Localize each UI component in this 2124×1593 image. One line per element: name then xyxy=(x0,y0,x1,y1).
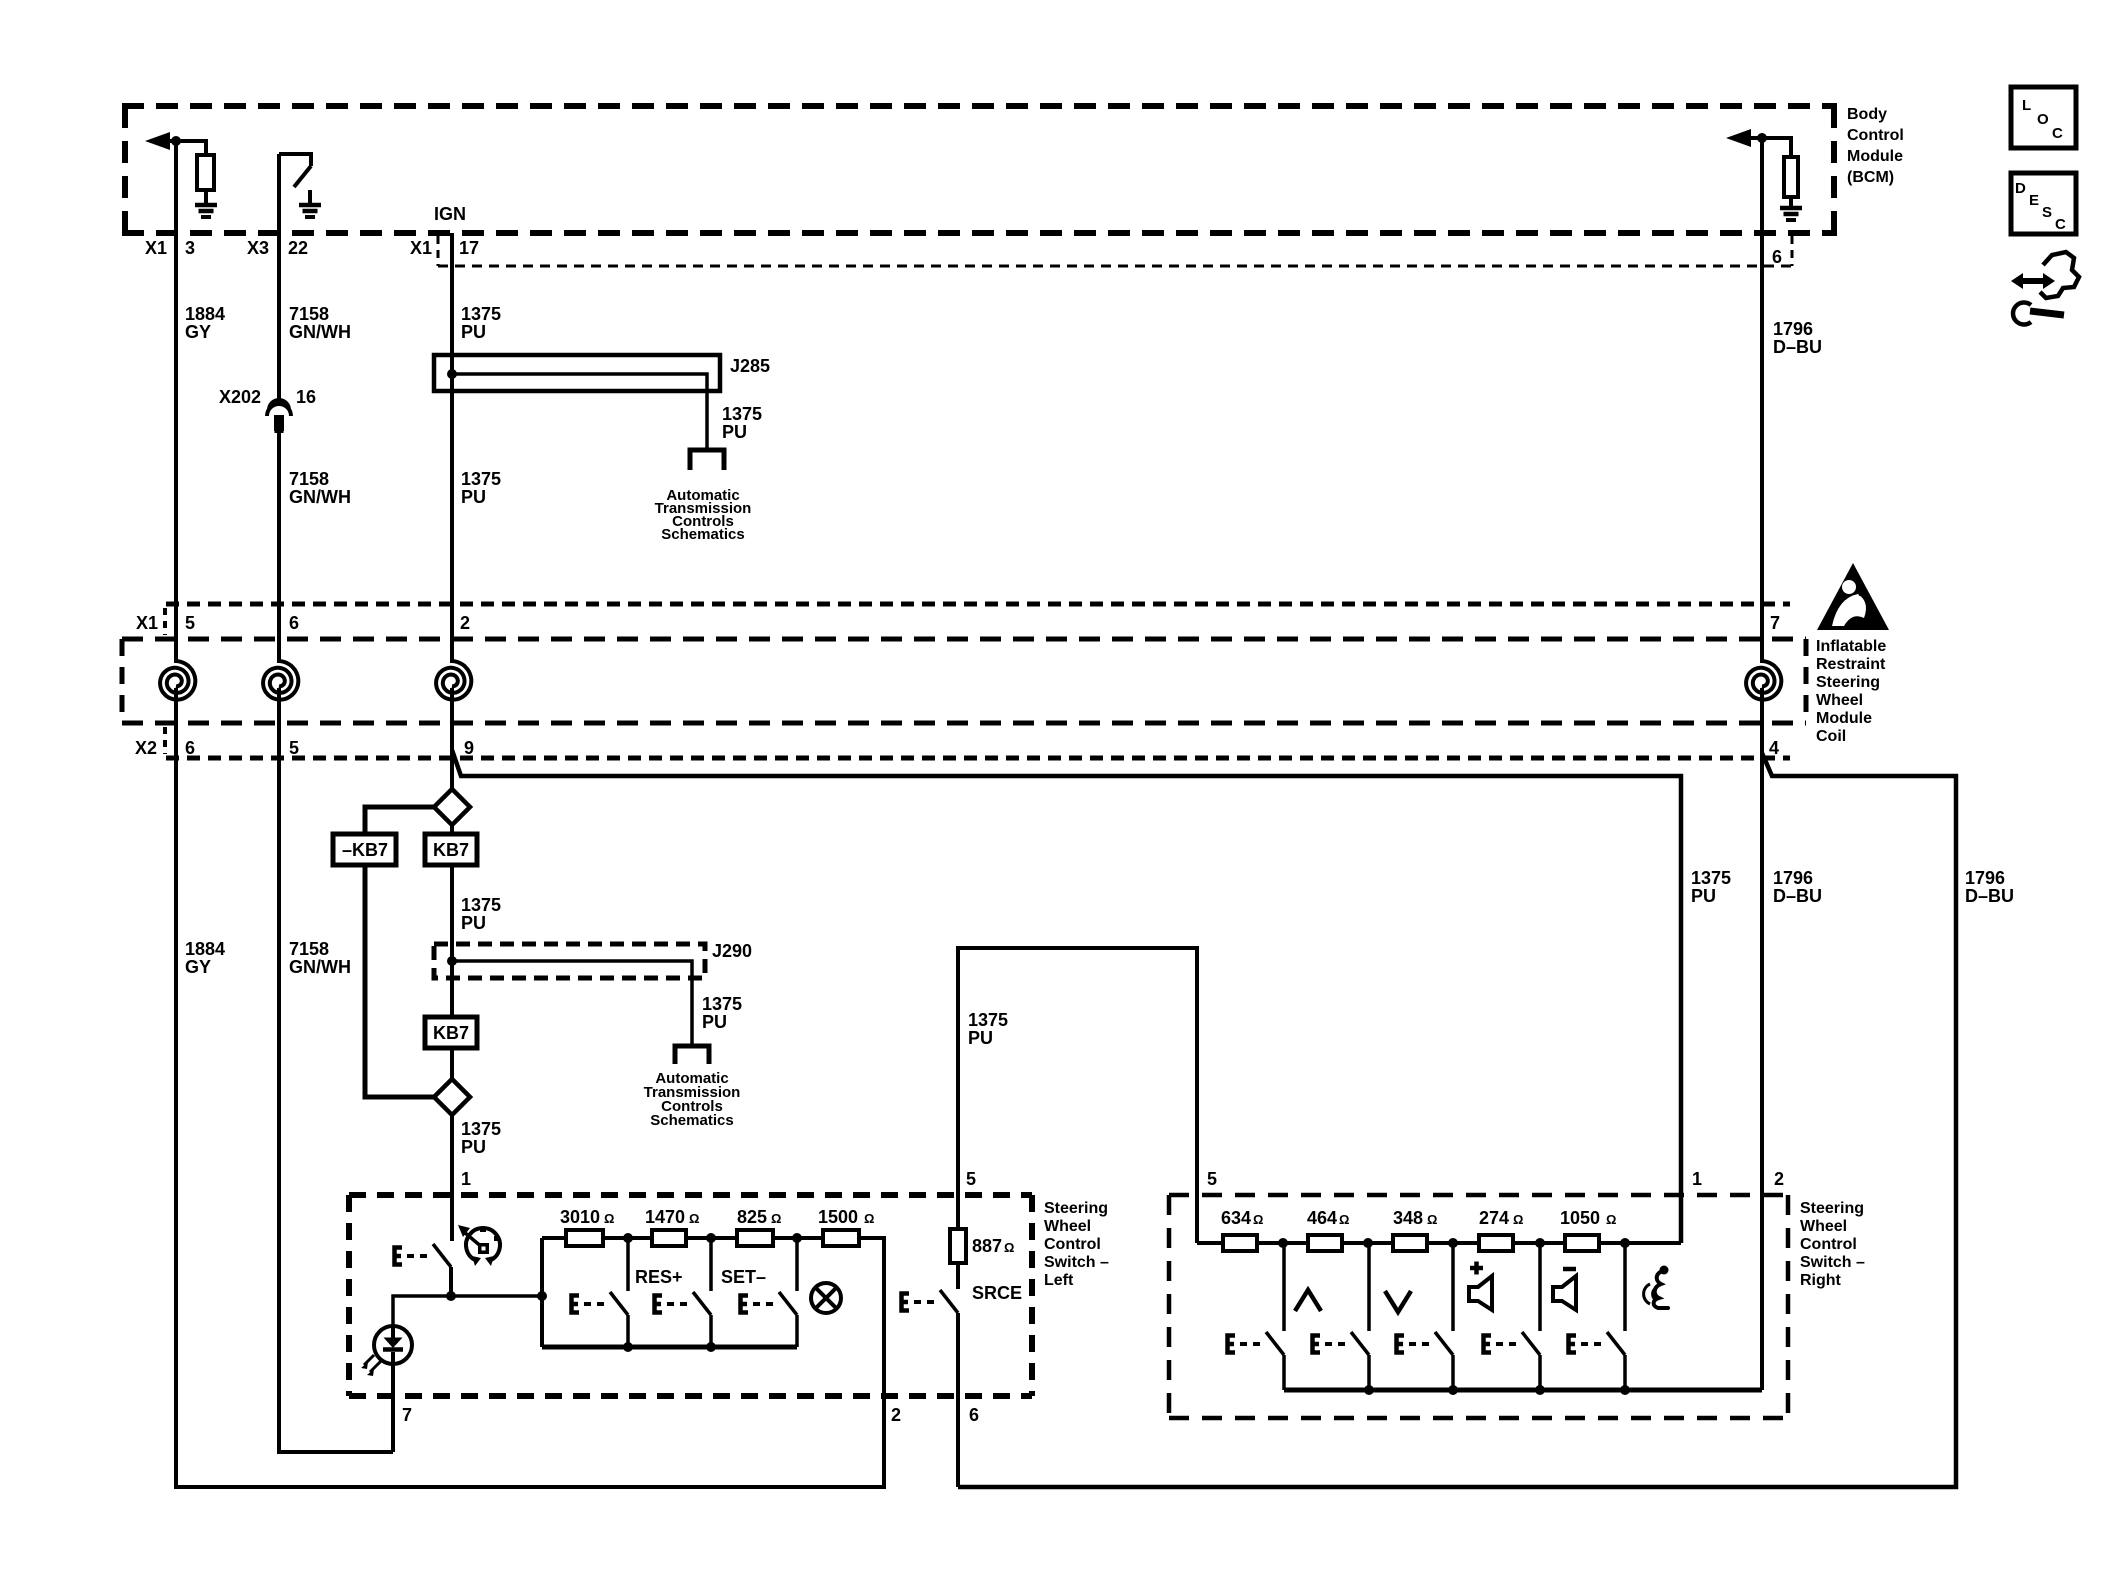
svg-text:X1: X1 xyxy=(136,613,158,633)
svg-text:O: O xyxy=(2037,111,2049,128)
svg-text:5: 5 xyxy=(289,738,299,758)
svg-text:16: 16 xyxy=(296,387,316,407)
svg-text:1796: 1796 xyxy=(1965,868,2005,888)
svg-text:(BCM): (BCM) xyxy=(1847,169,1894,186)
svg-text:Control: Control xyxy=(1044,1236,1101,1253)
svg-text:Coil: Coil xyxy=(1816,728,1846,745)
svg-text:D: D xyxy=(2015,180,2026,197)
svg-text:Schematics: Schematics xyxy=(661,526,744,543)
svg-text:1375: 1375 xyxy=(722,404,762,424)
svg-text:7158: 7158 xyxy=(289,304,329,324)
svg-text:17: 17 xyxy=(459,238,479,258)
svg-text:PU: PU xyxy=(461,322,486,342)
svg-text:1884: 1884 xyxy=(185,304,225,324)
svg-text:PU: PU xyxy=(702,1012,727,1032)
svg-text:2: 2 xyxy=(460,613,470,633)
svg-text:1375: 1375 xyxy=(1691,868,1731,888)
svg-text:D–BU: D–BU xyxy=(1773,337,1822,357)
svg-text:1: 1 xyxy=(1692,1169,1702,1189)
svg-text:1375: 1375 xyxy=(702,994,742,1014)
svg-text:GY: GY xyxy=(185,322,211,342)
svg-text:6: 6 xyxy=(1772,247,1782,267)
svg-text:Ω: Ω xyxy=(1253,1212,1263,1227)
svg-text:IGN: IGN xyxy=(434,204,466,224)
svg-text:–KB7: –KB7 xyxy=(342,840,388,860)
svg-text:Right: Right xyxy=(1800,1272,1842,1289)
svg-text:Ω: Ω xyxy=(1004,1240,1014,1255)
svg-text:PU: PU xyxy=(968,1028,993,1048)
svg-text:Ω: Ω xyxy=(1513,1212,1523,1227)
svg-text:Ω: Ω xyxy=(864,1211,874,1226)
svg-text:1796: 1796 xyxy=(1773,868,1813,888)
svg-text:1375: 1375 xyxy=(461,304,501,324)
svg-text:634: 634 xyxy=(1221,1208,1251,1228)
svg-text:PU: PU xyxy=(461,1137,486,1157)
svg-text:PU: PU xyxy=(461,487,486,507)
svg-text:7158: 7158 xyxy=(289,469,329,489)
svg-text:6: 6 xyxy=(289,613,299,633)
svg-text:5: 5 xyxy=(966,1169,976,1189)
svg-text:E: E xyxy=(2029,192,2039,209)
svg-text:GN/WH: GN/WH xyxy=(289,487,351,507)
svg-text:7: 7 xyxy=(1770,613,1780,633)
svg-text:887: 887 xyxy=(972,1236,1002,1256)
svg-text:Switch –: Switch – xyxy=(1044,1254,1109,1271)
svg-text:SET–: SET– xyxy=(721,1267,766,1287)
svg-text:J290: J290 xyxy=(712,941,752,961)
svg-text:PU: PU xyxy=(722,422,747,442)
svg-text:Inflatable: Inflatable xyxy=(1816,638,1886,655)
svg-text:Ω: Ω xyxy=(689,1211,699,1226)
svg-text:3: 3 xyxy=(185,238,195,258)
svg-text:1375: 1375 xyxy=(968,1010,1008,1030)
svg-text:Wheel: Wheel xyxy=(1816,692,1863,709)
svg-text:7158: 7158 xyxy=(289,939,329,959)
svg-text:Ω: Ω xyxy=(771,1211,781,1226)
svg-text:Ω: Ω xyxy=(1606,1212,1616,1227)
svg-text:X3: X3 xyxy=(247,238,269,258)
svg-text:Ω: Ω xyxy=(604,1211,614,1226)
svg-text:Body: Body xyxy=(1847,106,1887,123)
svg-text:4: 4 xyxy=(1769,738,1779,758)
svg-text:1: 1 xyxy=(461,1169,471,1189)
svg-text:274: 274 xyxy=(1479,1208,1509,1228)
svg-text:X2: X2 xyxy=(135,738,157,758)
svg-text:KB7: KB7 xyxy=(433,1023,469,1043)
svg-text:1375: 1375 xyxy=(461,469,501,489)
svg-text:464: 464 xyxy=(1307,1208,1337,1228)
svg-text:L: L xyxy=(2022,97,2031,114)
svg-text:J285: J285 xyxy=(730,356,770,376)
svg-text:Wheel: Wheel xyxy=(1800,1218,1847,1235)
svg-text:KB7: KB7 xyxy=(433,840,469,860)
svg-text:825: 825 xyxy=(737,1207,767,1227)
svg-text:S: S xyxy=(2042,204,2052,221)
svg-text:1375: 1375 xyxy=(461,1119,501,1139)
svg-text:6: 6 xyxy=(969,1405,979,1425)
svg-text:X202: X202 xyxy=(219,387,261,407)
svg-text:GY: GY xyxy=(185,957,211,977)
svg-text:1050: 1050 xyxy=(1560,1208,1600,1228)
svg-text:5: 5 xyxy=(185,613,195,633)
svg-text:PU: PU xyxy=(461,913,486,933)
svg-text:Schematics: Schematics xyxy=(650,1112,733,1129)
svg-text:1884: 1884 xyxy=(185,939,225,959)
svg-text:C: C xyxy=(2055,216,2066,233)
svg-text:Left: Left xyxy=(1044,1272,1074,1289)
svg-text:Ω: Ω xyxy=(1339,1212,1349,1227)
svg-text:Steering: Steering xyxy=(1800,1200,1864,1217)
svg-text:Control: Control xyxy=(1847,127,1904,144)
svg-text:1470: 1470 xyxy=(645,1207,685,1227)
svg-text:2: 2 xyxy=(891,1405,901,1425)
svg-text:Steering: Steering xyxy=(1044,1200,1108,1217)
svg-text:1375: 1375 xyxy=(461,895,501,915)
svg-text:Control: Control xyxy=(1800,1236,1857,1253)
svg-text:348: 348 xyxy=(1393,1208,1423,1228)
svg-text:5: 5 xyxy=(1207,1169,1217,1189)
svg-text:D–BU: D–BU xyxy=(1773,886,1822,906)
svg-text:D–BU: D–BU xyxy=(1965,886,2014,906)
svg-text:7: 7 xyxy=(402,1405,412,1425)
svg-text:GN/WH: GN/WH xyxy=(289,322,351,342)
svg-text:9: 9 xyxy=(464,738,474,758)
svg-text:X1: X1 xyxy=(410,238,432,258)
svg-text:1796: 1796 xyxy=(1773,319,1813,339)
svg-text:PU: PU xyxy=(1691,886,1716,906)
svg-text:GN/WH: GN/WH xyxy=(289,957,351,977)
svg-text:22: 22 xyxy=(288,238,308,258)
svg-text:Module: Module xyxy=(1816,710,1872,727)
svg-text:Module: Module xyxy=(1847,148,1903,165)
svg-text:Wheel: Wheel xyxy=(1044,1218,1091,1235)
svg-text:C: C xyxy=(2052,125,2063,142)
svg-text:X1: X1 xyxy=(145,238,167,258)
svg-text:Ω: Ω xyxy=(1427,1212,1437,1227)
svg-text:Switch –: Switch – xyxy=(1800,1254,1865,1271)
svg-text:Steering: Steering xyxy=(1816,674,1880,691)
svg-text:Restraint: Restraint xyxy=(1816,656,1886,673)
svg-text:6: 6 xyxy=(185,738,195,758)
svg-text:1500: 1500 xyxy=(818,1207,858,1227)
svg-text:3010: 3010 xyxy=(560,1207,600,1227)
svg-text:2: 2 xyxy=(1774,1169,1784,1189)
svg-text:SRCE: SRCE xyxy=(972,1283,1022,1303)
svg-text:RES+: RES+ xyxy=(635,1267,683,1287)
